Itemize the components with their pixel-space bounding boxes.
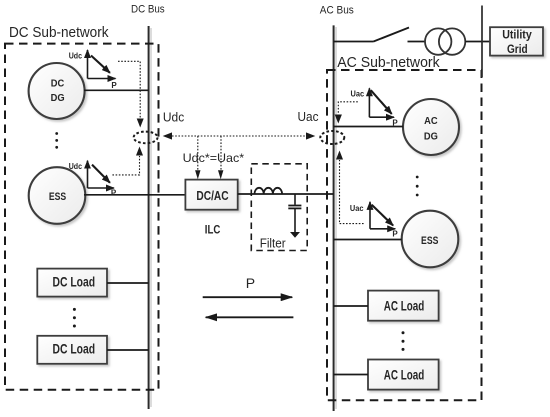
svg-text:P: P	[111, 81, 117, 90]
transformer T1	[425, 28, 465, 54]
wire AC bus to switch	[334, 41, 374, 43]
svg-text:ILC: ILC	[205, 225, 221, 237]
svg-text:ESS: ESS	[49, 191, 66, 203]
breaker switch	[374, 28, 410, 42]
svg-text:Grid: Grid	[507, 44, 528, 56]
svg-text:P: P	[392, 118, 398, 127]
svg-text:Uac: Uac	[351, 90, 365, 99]
svg-text:DC Bus: DC Bus	[131, 4, 165, 16]
ESS DC	[29, 167, 86, 224]
filter boundary	[251, 164, 307, 251]
DC sub-network boundary	[5, 44, 159, 390]
dotted ref arrow 1 into ILC	[197, 136, 199, 170]
dotted link AC DG droop to node Uac	[338, 102, 358, 114]
AC load 2	[368, 360, 439, 390]
utility grid box	[490, 27, 543, 56]
wire ESS to ILC converter	[84, 194, 185, 196]
svg-text:Utility: Utility	[502, 30, 532, 42]
svg-text:Udc*=Uac*: Udc*=Uac*	[183, 151, 245, 165]
wire ILC to AC bus	[238, 193, 334, 195]
dotted link node Udc to node Uac	[172, 135, 306, 137]
AC bus	[334, 25, 336, 411]
DC bus	[149, 26, 151, 409]
svg-text:DC: DC	[51, 77, 65, 89]
svg-text:Uac: Uac	[350, 204, 364, 213]
ellipsis between DC loads	[73, 308, 76, 328]
svg-text:P: P	[246, 275, 255, 291]
svg-text:AC Sub-network: AC Sub-network	[337, 54, 440, 71]
wire AC ESS to AC bus	[334, 239, 402, 241]
svg-text:DC Sub-network: DC Sub-network	[9, 24, 109, 41]
capacitor C	[288, 194, 301, 233]
converter DC/AC (ILC)	[185, 180, 237, 210]
svg-text:P: P	[392, 229, 398, 238]
svg-text:DC Load: DC Load	[53, 342, 96, 357]
wire DC DG to DC bus	[84, 89, 149, 91]
droop curve DC DG	[69, 50, 118, 90]
generator DC DG	[29, 63, 85, 119]
ellipsis between AC loads	[402, 331, 405, 351]
svg-text:AC Load: AC Load	[384, 367, 425, 382]
ESS AC	[402, 211, 459, 268]
svg-text:Udc: Udc	[69, 51, 83, 60]
svg-text:AC Load: AC Load	[384, 299, 425, 314]
wire AC load 2 to AC bus	[334, 374, 368, 376]
power flow arrow left	[206, 316, 294, 318]
DC load 2	[37, 336, 107, 364]
wire switch to transformer	[408, 41, 426, 43]
droop curve DC ESS	[69, 161, 117, 198]
svg-text:P: P	[111, 188, 117, 197]
dotted ref arrow 2 into ILC	[220, 136, 222, 170]
AC sub-network boundary	[327, 70, 482, 400]
power flow arrow right	[203, 296, 293, 298]
utility grid tie line	[481, 6, 483, 78]
DC load 1	[37, 269, 107, 297]
generator AC DG	[403, 99, 459, 155]
svg-text:Filter: Filter	[260, 235, 287, 250]
inductor L	[255, 188, 283, 194]
svg-text:Uac: Uac	[298, 109, 319, 124]
wire AC load 1 to AC bus	[334, 305, 368, 307]
svg-text:Udc: Udc	[163, 110, 185, 125]
dotted link AC ESS droop to node Uac	[340, 160, 364, 224]
svg-text:DG: DG	[424, 131, 438, 143]
node Udc ellipse	[134, 132, 158, 144]
svg-text:Udc: Udc	[69, 162, 83, 171]
wire DC load 1 to DC bus	[107, 282, 149, 284]
dotted link DC DG droop to node Udc	[118, 61, 140, 118]
svg-text:DC/AC: DC/AC	[196, 188, 229, 203]
dotted link DC ESS droop to node Udc	[112, 156, 139, 175]
wire transformer to utility grid	[465, 41, 490, 43]
ellipsis between AC DG and ESS	[416, 176, 419, 197]
svg-text:DG: DG	[51, 92, 65, 104]
wire AC DG to AC bus	[334, 126, 403, 128]
svg-text:DC Load: DC Load	[53, 275, 96, 290]
svg-text:AC Bus: AC Bus	[320, 5, 354, 17]
wire DC load 2 to DC bus	[107, 349, 149, 351]
ground arrow	[290, 232, 300, 238]
ellipsis between DC DG and ESS	[55, 132, 58, 149]
svg-text:ESS: ESS	[421, 235, 438, 247]
svg-text:AC: AC	[424, 115, 438, 127]
droop curve AC ESS	[350, 202, 398, 239]
node Uac ellipse	[320, 131, 344, 144]
droop curve AC DG	[351, 88, 399, 127]
AC load 1	[368, 291, 439, 321]
